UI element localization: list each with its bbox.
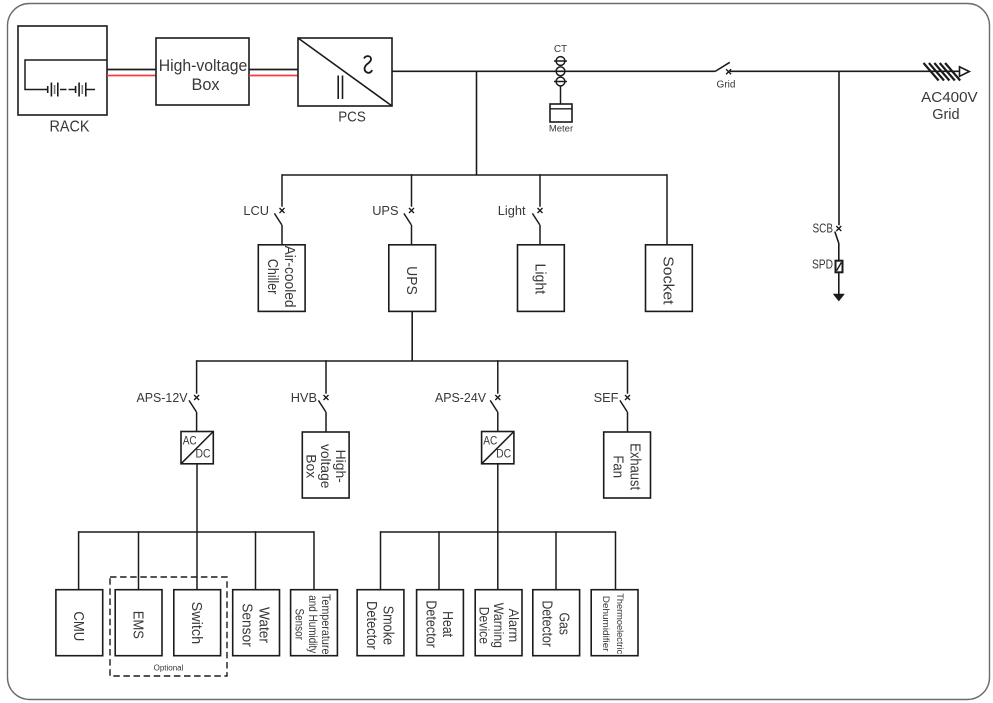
- wire AC/DC 2 to distribution bus 4 and Alarm Warning Device: [497, 464, 499, 590]
- load box Water Sensor: [233, 590, 280, 656]
- load box Air-cooled Chiller: [258, 245, 305, 312]
- surge protector SPD: [836, 261, 843, 295]
- svg-text:WaterSensor: WaterSensor: [239, 603, 272, 647]
- AC bus wire PCS to Grid switch: [392, 70, 715, 72]
- svg-text:Grid: Grid: [717, 80, 736, 91]
- battery rack RACK box: [18, 26, 107, 115]
- load box Light: [518, 245, 565, 312]
- inverter PCS: [298, 38, 392, 106]
- breaker APS-12V: [189, 395, 199, 432]
- load box High-voltage Box 2: [302, 432, 349, 498]
- svg-text:UPS: UPS: [372, 203, 398, 218]
- wire bus3 to EMS: [138, 531, 140, 590]
- breaker Light feeder: [532, 208, 542, 245]
- svg-text:Box: Box: [191, 76, 219, 94]
- wire RACK to High-voltage Box (black): [107, 69, 156, 71]
- wire bus to APS-24V breaker: [497, 360, 499, 394]
- converter AC/DC 2: [482, 432, 514, 464]
- svg-text:SPD: SPD: [812, 257, 833, 272]
- wire bus to SEF breaker: [627, 360, 629, 394]
- wire UPS to distribution bus 2: [411, 311, 413, 361]
- meter Meter: [550, 104, 572, 122]
- load box CMU: [56, 590, 103, 656]
- svg-text:APS-12V: APS-12V: [137, 390, 188, 405]
- breaker HVB feeder: [318, 395, 328, 432]
- wire bus to UPS feeder breaker: [411, 174, 413, 207]
- grid connection hatch AC400V: [924, 63, 961, 81]
- load box EMS: [115, 590, 162, 656]
- svg-text:HVB: HVB: [291, 390, 317, 405]
- svg-text:SmokeDetector: SmokeDetector: [363, 601, 396, 650]
- svg-text:UPS: UPS: [403, 266, 419, 295]
- optional dashed group: [110, 577, 227, 676]
- load box Temperature and Humidity Sensor: [291, 590, 338, 656]
- wire junction to SCB branch: [838, 71, 840, 225]
- wire bus3 to Temperature and Humidity Sensor: [313, 531, 315, 590]
- load box Alarm Warning Device: [475, 590, 522, 656]
- svg-text:Light: Light: [498, 203, 526, 218]
- breaker SEF: [620, 395, 630, 432]
- svg-text:CT: CT: [554, 44, 567, 55]
- load box Thermoelectric Dehumidifier: [591, 590, 638, 656]
- svg-text:AlarmWarningDevice: AlarmWarningDevice: [476, 603, 520, 648]
- wire bus to Light feeder breaker: [539, 174, 541, 207]
- load box Gas Detector: [533, 590, 580, 656]
- svg-text:Switch: Switch: [188, 602, 204, 645]
- svg-text:DC: DC: [196, 447, 211, 461]
- label AC400V Grid: [921, 90, 978, 123]
- battery cell B2: [76, 83, 86, 97]
- High-voltage Box HVB: [156, 38, 249, 105]
- wire High-voltage Box to PCS (black): [249, 69, 298, 71]
- svg-text:SCB: SCB: [813, 221, 834, 236]
- svg-text:CMU: CMU: [70, 611, 86, 641]
- wire bus4 to Gas Detector: [555, 531, 557, 590]
- wire bus to HVB feeder breaker: [325, 360, 327, 394]
- breaker APS-24V: [490, 395, 500, 432]
- svg-text:Light: Light: [532, 263, 548, 294]
- svg-text:LCU: LCU: [243, 203, 269, 218]
- battery cell B1: [48, 83, 58, 97]
- wire bus3 to Water Sensor: [255, 531, 257, 590]
- wire bus1 to Socket: [666, 174, 668, 245]
- load box Heat Detector: [417, 590, 464, 656]
- svg-text:RACK: RACK: [50, 119, 90, 136]
- wire High-voltage Box to PCS (red): [249, 75, 298, 77]
- load box Smoke Detector: [357, 590, 404, 656]
- distribution bus 1: [282, 174, 667, 176]
- svg-text:High-voltage: High-voltage: [159, 57, 248, 75]
- wire bus3 to CMU: [78, 531, 80, 590]
- svg-text:EMS: EMS: [129, 611, 145, 639]
- wire RACK to High-voltage Box (red): [107, 75, 156, 77]
- load box UPS: [389, 245, 436, 312]
- svg-text:AC: AC: [183, 434, 197, 448]
- wire AC/DC 1 to distribution bus 3 and Switch: [196, 464, 198, 590]
- svg-text:Socket: Socket: [660, 256, 676, 304]
- distribution bus 3: [79, 531, 314, 533]
- svg-text:Meter: Meter: [549, 124, 573, 135]
- SPD discharge arrow: [834, 294, 844, 301]
- svg-text:AC: AC: [483, 434, 497, 448]
- wire bus4 to Smoke Detector: [380, 531, 382, 590]
- svg-text:Optional: Optional: [154, 664, 184, 673]
- svg-text:APS-24V: APS-24V: [435, 390, 486, 405]
- converter AC/DC 1: [181, 432, 213, 464]
- svg-text:AC400V: AC400V: [921, 90, 978, 106]
- wire bus to LCU breaker: [281, 174, 283, 207]
- load box Socket: [646, 245, 693, 312]
- svg-text:DC: DC: [496, 447, 511, 461]
- wire main bus to distribution bus 1: [476, 71, 478, 175]
- grid arrow head: [960, 67, 970, 77]
- load box Switch: [174, 590, 221, 656]
- wire bus4 to Heat Detector: [438, 531, 440, 590]
- switch Grid: [715, 62, 731, 74]
- wire CT to Meter: [560, 86, 562, 104]
- distribution bus 2: [197, 360, 628, 362]
- wire bus to APS-12V breaker: [196, 360, 198, 394]
- wire bus4 to Thermoelectric Dehumidifier: [615, 531, 617, 590]
- load box Exhaust Fan: [604, 432, 651, 498]
- wire Grid switch to AC400V Grid arrow: [730, 70, 968, 72]
- breaker SCB: [835, 226, 842, 261]
- svg-text:PCS: PCS: [338, 110, 366, 126]
- svg-text:SEF: SEF: [594, 390, 619, 405]
- breaker LCU: [274, 208, 284, 245]
- distribution bus 4: [381, 531, 616, 533]
- rack internal wire: [25, 60, 107, 90]
- breaker UPS feeder: [404, 208, 414, 245]
- svg-text:Grid: Grid: [932, 107, 959, 123]
- current transformer CT: [554, 57, 567, 86]
